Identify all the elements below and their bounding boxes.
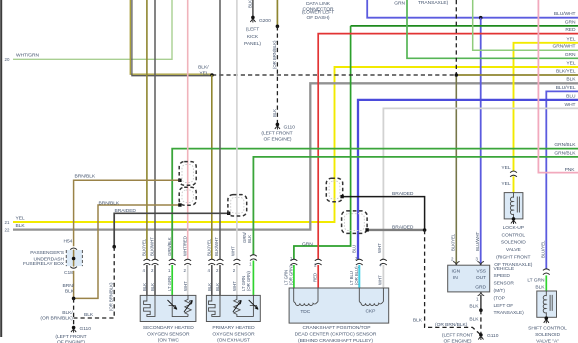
wire BLU/WHT to VSS OUT — [480, 18, 482, 266]
svg-text:RED: RED — [313, 273, 318, 282]
svg-text:VALVE "A": VALVE "A" — [536, 339, 559, 343]
terminal square BRAIDED left — [227, 212, 230, 215]
wire BLK/WHT primary O2 — [219, 0, 221, 259]
svg-text:BRN/: BRN/ — [63, 283, 75, 289]
svg-text:BLU: BLU — [352, 245, 357, 253]
wire YEL to lock-up solenoid — [514, 43, 578, 171]
wire BLK/YEL down to VSS IGN — [455, 75, 457, 265]
terminal square BRAIDED gray — [365, 228, 368, 231]
wire YEL pin 21 — [13, 67, 578, 222]
ground G110 right — [478, 333, 483, 340]
svg-text:RED: RED — [565, 27, 576, 33]
svg-text:(OR BRN/BLK): (OR BRN/BLK) — [435, 322, 468, 328]
svg-text:WHT: WHT — [378, 275, 383, 285]
svg-text:BLK: BLK — [535, 285, 545, 291]
svg-text:C18: C18 — [64, 270, 73, 276]
heater coil secondary — [144, 295, 155, 316]
svg-text:WHT/GRN: WHT/GRN — [16, 53, 40, 59]
wire BRN/BLK 1 — [74, 180, 181, 246]
wire LT GRN into secondary O2 sensor — [171, 265, 173, 295]
wire BRAIDED black — [342, 197, 425, 230]
wire WHT right — [383, 108, 578, 259]
component lock-up control solenoid valve — [504, 193, 523, 219]
node BRAIDED dashed junction — [112, 245, 116, 249]
connector arcs BLK/WHT sec — [152, 259, 159, 265]
ground G110 left — [71, 326, 76, 333]
svg-text:(ON TWC: (ON TWC — [158, 338, 180, 343]
svg-text:OF TRANSAXLE): OF TRANSAXLE) — [494, 262, 533, 268]
node BLK/YEL junction left — [210, 73, 214, 77]
wire BRAIDED shield drain left — [114, 213, 229, 246]
wire GRN medium — [407, 0, 578, 58]
connector arcs WHT pri — [234, 259, 241, 265]
svg-text:CRANKSHAFT POSITION/TOP: CRANKSHAFT POSITION/TOP — [303, 325, 371, 331]
svg-text:PASSENGER'S: PASSENGER'S — [30, 250, 65, 256]
svg-text:20: 20 — [5, 57, 10, 62]
svg-text:OF ENGINE): OF ENGINE) — [263, 136, 291, 142]
connector arcs WHT CKP — [380, 259, 387, 265]
svg-text:GRN/WHT: GRN/WHT — [552, 44, 575, 50]
svg-text:WHT: WHT — [377, 243, 382, 253]
wire BLK/YEL down to primary O2 sensor — [211, 75, 213, 259]
svg-text:SHIFT CONTROL: SHIFT CONTROL — [528, 325, 567, 331]
svg-text:BLK: BLK — [469, 317, 479, 323]
svg-text:BLK: BLK — [16, 223, 26, 229]
connector arcs LT GRN pri — [250, 255, 257, 261]
svg-text:(OR BRN/BLK): (OR BRN/BLK) — [109, 282, 114, 311]
svg-text:YEL: YEL — [501, 165, 510, 171]
svg-text:YEL: YEL — [16, 215, 25, 221]
wire PNK — [538, 0, 578, 173]
svg-text:BLK: BLK — [65, 289, 75, 295]
wire YEL below connector into lock-up solenoid — [513, 176, 515, 192]
svg-text:OF ENGINE): OF ENGINE) — [443, 338, 471, 343]
svg-text:VALVE: VALVE — [506, 247, 522, 253]
wire WHT into CKP — [382, 265, 384, 289]
svg-text:GRN/BLK: GRN/BLK — [554, 150, 576, 156]
pin fork IGN — [453, 261, 460, 265]
svg-text:G110: G110 — [80, 326, 92, 332]
wire GRN dark to right edge — [351, 25, 578, 27]
svg-text:WHT: WHT — [183, 281, 188, 291]
svg-text:21: 21 — [5, 220, 10, 225]
svg-text:G110: G110 — [487, 333, 499, 339]
svg-text:TDC: TDC — [300, 309, 310, 315]
sensor element 1 secondary — [169, 295, 188, 316]
svg-text:BLK: BLK — [215, 283, 220, 291]
svg-text:(LEFT: (LEFT — [246, 27, 259, 33]
wire LT BLU (OR BLU) into CKP — [358, 265, 360, 289]
connector A1 dashed — [179, 162, 196, 186]
pickup coil CKP — [359, 288, 383, 306]
svg-text:(OR BRN/BLK): (OR BRN/BLK) — [40, 316, 73, 322]
node BLK/YEL junction right — [455, 73, 459, 77]
svg-text:(LEFT FRONT: (LEFT FRONT — [55, 334, 86, 340]
connector arcs LT GRN TDC — [291, 259, 298, 265]
svg-text:BRAIDED: BRAIDED — [392, 191, 414, 197]
wire BRN/BLK C18 down — [73, 271, 75, 299]
svg-text:YEL: YEL — [199, 71, 208, 77]
node BRAIDED junction right — [423, 228, 427, 232]
svg-text:YEL: YEL — [566, 60, 575, 66]
svg-text:(LEFT FRONT: (LEFT FRONT — [442, 332, 473, 338]
node junction inside H54 — [72, 257, 76, 261]
svg-text:H54: H54 — [64, 238, 73, 244]
wire BRN solid to mid G110 — [276, 0, 278, 26]
ground G110 middle — [275, 123, 280, 130]
connector B1 dashed — [326, 178, 342, 201]
node GRD junction — [479, 308, 483, 312]
node BRN/dashed junction — [276, 25, 280, 29]
wire WHT/GRN pin 20 — [13, 0, 172, 59]
svg-text:OXYGEN SENSOR: OXYGEN SENSOR — [147, 331, 190, 337]
svg-text:(OR BRN/BLK): (OR BRN/BLK) — [272, 40, 277, 69]
svg-text:GRD: GRD — [475, 285, 486, 291]
sensor element 1 primary — [234, 295, 254, 316]
wire BLK/YEL solid right — [456, 74, 578, 76]
wire BRAIDED dashed to G110 right — [425, 230, 481, 335]
node lock-up ground junction — [512, 217, 516, 221]
svg-text:G200: G200 — [259, 18, 271, 24]
svg-text:FUSE/RELAY BOX: FUSE/RELAY BOX — [23, 261, 65, 267]
svg-text:SPEED: SPEED — [494, 273, 511, 279]
svg-text:CONTROL: CONTROL — [502, 232, 526, 238]
svg-text:(LOWER LEFT: (LOWER LEFT — [302, 10, 334, 16]
svg-text:BLK/YEL: BLK/YEL — [142, 238, 147, 256]
wire GRN/BLK lower — [253, 157, 578, 255]
svg-text:BLK/YEL: BLK/YEL — [556, 69, 576, 75]
svg-text:BLK/YEL: BLK/YEL — [451, 233, 456, 251]
svg-text:GRN: GRN — [302, 241, 313, 247]
svg-text:BLK: BLK — [207, 283, 212, 291]
svg-text:(TOP: (TOP — [494, 295, 505, 301]
wire BLK/YEL secondary O2 — [146, 0, 148, 259]
svg-text:LOCK-UP: LOCK-UP — [503, 225, 524, 231]
svg-text:BRN/BLK: BRN/BLK — [99, 200, 120, 206]
wire GRN down to TDC — [294, 26, 351, 259]
connector arcs WHT sec — [184, 259, 191, 265]
svg-text:DEAD CENTER (CKP/TDC) SENSOR: DEAD CENTER (CKP/TDC) SENSOR — [295, 332, 377, 338]
svg-text:BLU: BLU — [566, 93, 576, 99]
wire BLU/WHT — [367, 0, 578, 18]
connector arcs shift — [543, 269, 550, 275]
svg-text:BRN/BLK: BRN/BLK — [75, 173, 96, 179]
wire BRAIDED dashed to G110 — [74, 247, 115, 318]
connector arcs LT GRN sec — [169, 259, 176, 265]
wire BRAIDED gray — [367, 229, 425, 231]
wire BLK (OR BRN/BLK) dashed to G110 left — [73, 298, 75, 327]
wire GRN/WHT — [473, 0, 578, 50]
svg-text:(OR BLU): (OR BLU) — [354, 266, 359, 285]
node shift ground junction — [545, 316, 549, 320]
svg-text:LEFT OF: LEFT OF — [494, 303, 514, 309]
svg-text:OF DASH): OF DASH) — [307, 15, 330, 21]
svg-text:BLK: BLK — [413, 318, 423, 324]
svg-text:WHT: WHT — [231, 246, 236, 256]
svg-text:DATA LINK: DATA LINK — [306, 1, 331, 7]
svg-text:KICK: KICK — [247, 34, 259, 40]
terminal square BRAIDED black — [340, 195, 343, 198]
svg-text:(ON EXHAUST: (ON EXHAUST — [217, 338, 250, 343]
svg-text:BLU/YEL: BLU/YEL — [556, 85, 576, 91]
wire RED into TDC — [317, 265, 319, 289]
connector arcs RED TDC — [315, 259, 322, 265]
svg-text:BLK: BLK — [84, 312, 94, 318]
svg-text:BLK: BLK — [247, 235, 252, 243]
svg-text:(LEFT FRONT: (LEFT FRONT — [261, 131, 292, 137]
wire LT GRN (OR GRN) into TDC — [293, 265, 295, 289]
svg-text:VSS: VSS — [476, 268, 486, 274]
connector H54 passenger's underdash fuse/relay box — [66, 248, 82, 268]
connector A2 dashed — [179, 187, 196, 205]
wire BRN/BLK 2 — [75, 205, 180, 298]
connector B2 dashed — [342, 211, 368, 234]
svg-text:BLU/WHT: BLU/WHT — [554, 11, 576, 17]
svg-text:SENSOR: SENSOR — [494, 281, 515, 287]
terminal square BRN/BLK 2 — [178, 203, 181, 206]
node BLU/WHT junction — [479, 16, 483, 20]
svg-text:OUT: OUT — [476, 275, 486, 281]
svg-text:YEL: YEL — [501, 181, 510, 187]
heater coil primary — [209, 295, 221, 316]
wire BRN/BLK through H54 box — [73, 250, 75, 267]
connector arcs YEL — [510, 171, 517, 177]
svg-text:GRN/BLK: GRN/BLK — [167, 237, 172, 256]
svg-text:BLK/: BLK/ — [62, 310, 73, 316]
component vehicle speed sensor box — [448, 265, 490, 292]
wire BLK/WHT secondary O2 — [154, 0, 156, 259]
svg-text:CKP: CKP — [365, 308, 375, 314]
svg-text:PANEL): PANEL) — [244, 41, 261, 47]
svg-text:BLK: BLK — [469, 304, 479, 310]
svg-text:BLK: BLK — [566, 77, 576, 83]
pickup coil TDC — [294, 288, 318, 306]
wire BLU — [358, 100, 578, 259]
wire WHT/RED secondary O2 — [187, 0, 189, 259]
svg-text:WHT: WHT — [565, 102, 576, 108]
svg-text:GRN: GRN — [565, 52, 576, 58]
svg-text:LT GRN: LT GRN — [167, 276, 172, 291]
component secondary heated oxygen sensor — [140, 295, 196, 321]
svg-text:PNK: PNK — [565, 167, 576, 173]
svg-text:(OR GRN): (OR GRN) — [246, 271, 251, 291]
connector arcs BLK/YEL sec — [144, 259, 151, 265]
ground lock-up — [511, 220, 516, 224]
svg-text:BLK: BLK — [150, 283, 155, 291]
component shift control solenoid valve A — [537, 291, 557, 317]
wire BLK (OR BRN/BLK) dashed to mid G110 — [276, 26, 278, 124]
svg-text:WHT: WHT — [232, 281, 237, 291]
svg-text:YEL: YEL — [566, 36, 575, 42]
wire LT GRN/BLK into shift solenoid — [545, 275, 547, 291]
svg-text:TRANSAXLE): TRANSAXLE) — [418, 0, 449, 6]
svg-text:SECONDARY HEATED: SECONDARY HEATED — [143, 325, 194, 331]
svg-text:PRIMARY HEATED: PRIMARY HEATED — [212, 325, 255, 331]
wire BLK from GRD — [480, 295, 482, 310]
ground G200 — [250, 16, 255, 23]
pin fork GRD — [478, 292, 485, 296]
svg-text:BRAIDED: BRAIDED — [115, 208, 137, 214]
wire BLK pin 22 — [13, 83, 578, 229]
svg-text:BLK/WHT: BLK/WHT — [214, 237, 219, 256]
node BRN/BLK bottom junction — [72, 297, 76, 301]
svg-text:(RIGHT FRONT: (RIGHT FRONT — [496, 255, 530, 261]
wire BLK stub to G200 — [252, 0, 254, 17]
svg-text:(M/T): (M/T) — [494, 288, 506, 294]
connector C1 dashed — [228, 195, 247, 216]
svg-text:LT GRN: LT GRN — [527, 277, 545, 283]
svg-text:BLK: BLK — [272, 109, 277, 117]
connector arcs BLK/YEL pri — [208, 259, 215, 265]
connector arcs BLK/WHT pri — [217, 259, 224, 265]
svg-text:GRN/BLK: GRN/BLK — [554, 142, 576, 148]
svg-text:IGN: IGN — [452, 268, 461, 274]
svg-text:GRN: GRN — [394, 1, 405, 7]
svg-text:OF ENGINE): OF ENGINE) — [57, 340, 85, 343]
wire GRN/BLK upper — [172, 149, 578, 259]
svg-text:BLK/WHT: BLK/WHT — [150, 237, 155, 256]
wire BLK/YEL dashed horizontal — [212, 74, 456, 76]
svg-text:IN: IN — [453, 275, 458, 281]
svg-text:22: 22 — [5, 227, 10, 232]
component primary heated oxygen sensor — [206, 295, 260, 321]
component CKP/TDC sensor box — [289, 288, 389, 323]
terminal square BRN/BLK 1 — [178, 179, 181, 182]
wire BLK/YEL upper-left corner — [130, 0, 212, 74]
svg-text:BLK: BLK — [142, 283, 147, 291]
wire LT GRN (OR GRN) into primary O2 sensor — [252, 261, 254, 296]
svg-text:SOLENOID: SOLENOID — [501, 240, 526, 246]
svg-text:BLU/WHT: BLU/WHT — [475, 232, 480, 251]
ground shift solenoid — [544, 320, 549, 324]
svg-text:BLU/YEL: BLU/YEL — [541, 240, 546, 258]
svg-text:(OR GRN): (OR GRN) — [289, 265, 294, 285]
svg-text:G110: G110 — [284, 124, 296, 130]
svg-text:TRANSAXLE): TRANSAXLE) — [494, 310, 525, 316]
wire BLK dashed to G110 right — [480, 310, 482, 335]
pin fork VSS — [477, 261, 484, 265]
connector arcs LT BLU CKP — [356, 259, 363, 265]
wire BLU/YEL — [546, 91, 578, 268]
svg-text:BLK: BLK — [248, 0, 253, 8]
svg-text:SOLENOID: SOLENOID — [535, 332, 560, 338]
svg-text:BLK/YEL: BLK/YEL — [207, 238, 212, 256]
page border left edge — [0, 0, 2, 337]
svg-text:(BEHIND CRANKSHAFT PULLEY): (BEHIND CRANKSHAFT PULLEY) — [298, 338, 373, 343]
svg-text:GRN: GRN — [565, 19, 576, 25]
wire RED — [318, 34, 578, 259]
wire dashed vertical from top to BLK/YEL node — [455, 0, 457, 75]
sensor element 2 secondary — [185, 295, 191, 316]
wire WHT primary O2 — [236, 0, 238, 259]
sensor element 2 primary — [250, 295, 257, 316]
svg-text:BRAIDED: BRAIDED — [392, 224, 414, 230]
svg-text:OXYGEN SENSOR: OXYGEN SENSOR — [212, 331, 255, 337]
svg-text:WHT/RED: WHT/RED — [183, 236, 188, 256]
svg-text:BLK/: BLK/ — [198, 65, 209, 71]
